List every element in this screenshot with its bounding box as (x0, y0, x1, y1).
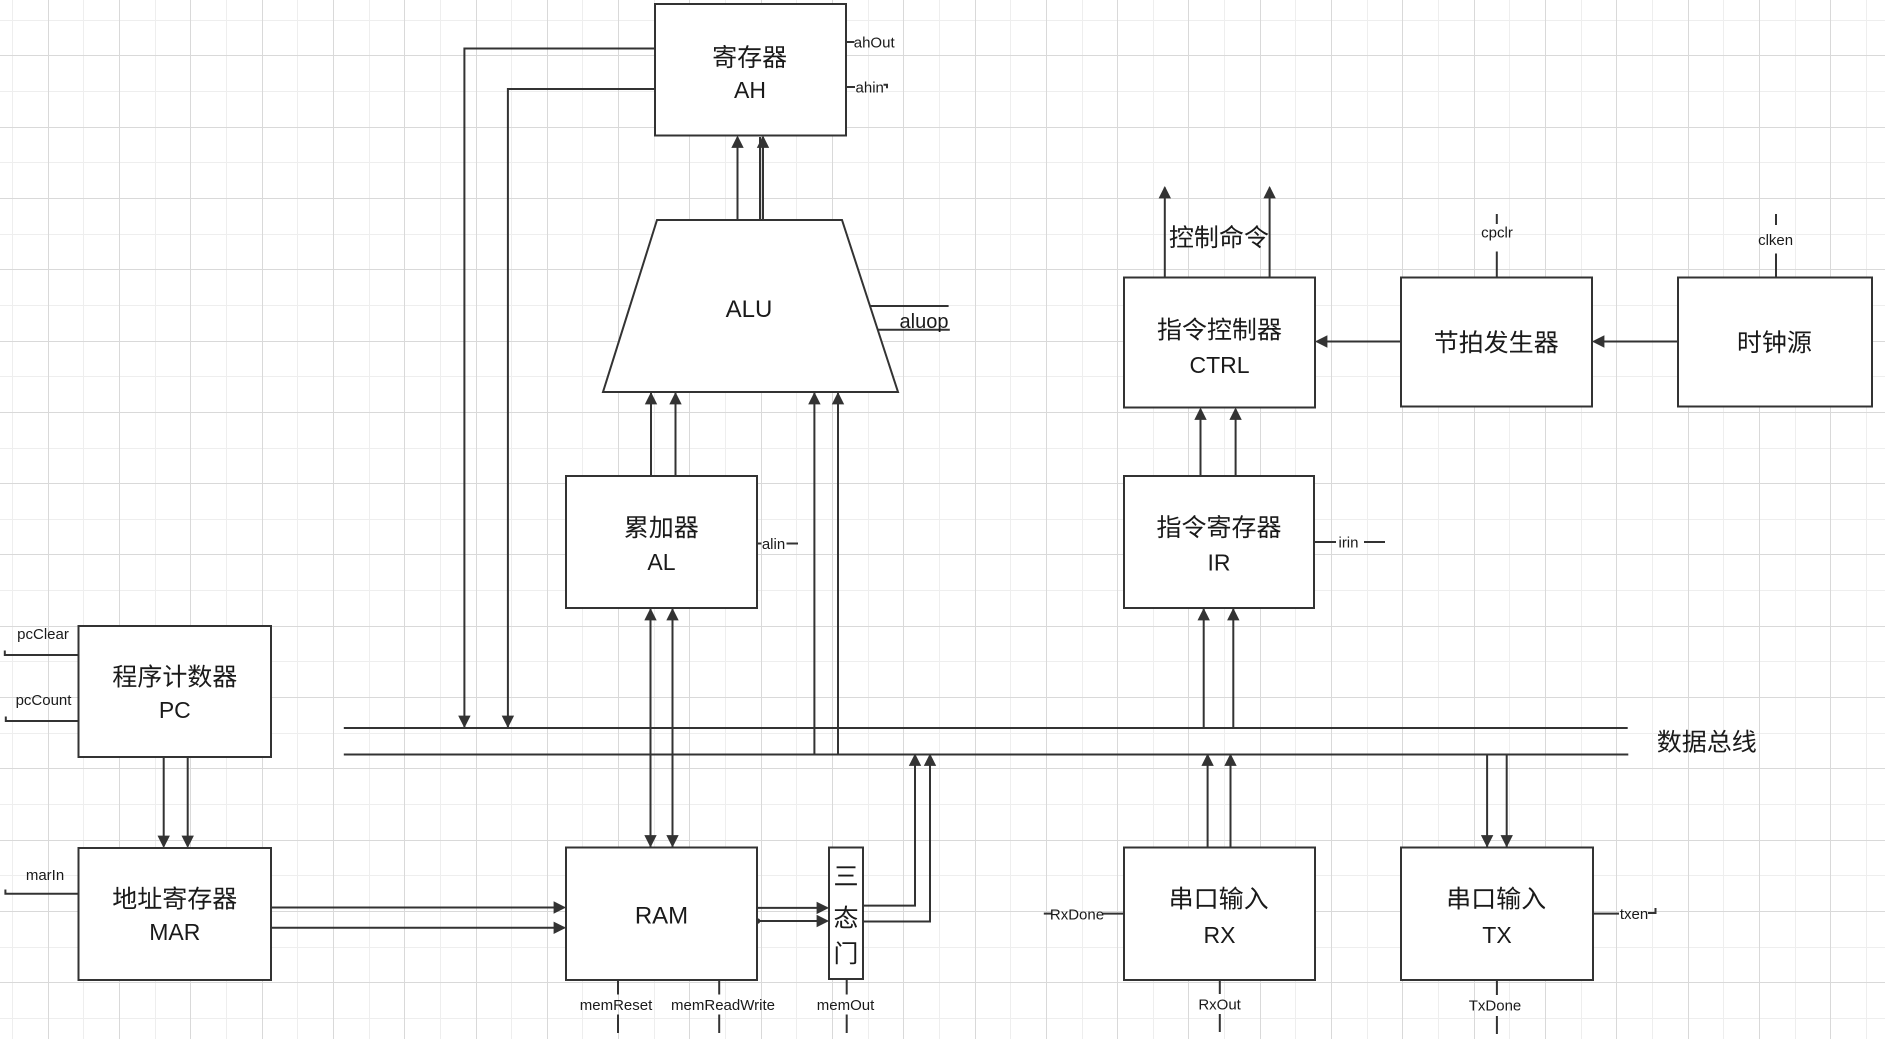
label cpclr (1481, 225, 1513, 242)
label control commands (1170, 225, 1269, 248)
text AH (734, 77, 766, 103)
beat generator box (1401, 278, 1592, 407)
wire IR to CTRL b (1229, 408, 1241, 477)
text instruction register (IR) (1157, 515, 1281, 538)
text beat generator (1435, 330, 1558, 353)
text accumulator (AL) (625, 516, 698, 539)
wire memOut stub lower (846, 1015, 848, 1034)
svg-text:CTRL: CTRL (1189, 352, 1249, 378)
text tri-state gate char 3 (836, 941, 856, 964)
tri-state gate box (829, 848, 863, 980)
svg-text:marIn: marIn (26, 867, 64, 884)
wire txen seg (1593, 913, 1619, 915)
svg-text:AH: AH (734, 77, 766, 103)
svg-text:memReset: memReset (580, 997, 653, 1014)
wire data bus to TX a (1481, 755, 1493, 848)
wire irin right seg (1364, 541, 1385, 543)
svg-text:irin: irin (1338, 535, 1358, 552)
wire cpclr lower (1496, 252, 1498, 278)
text serial input (TX) (1449, 887, 1545, 910)
wire AH input left 1 (bus to AH) (458, 49, 655, 729)
wire clken lower (1775, 254, 1777, 278)
svg-text:ALU: ALU (726, 296, 773, 323)
wire TxDone stub lower (1496, 1016, 1498, 1034)
wire memReset stub (617, 980, 619, 995)
text ALU (726, 296, 773, 323)
svg-text:PC: PC (159, 697, 191, 723)
wire pcCount input (6, 717, 79, 722)
text register (AH) (714, 45, 787, 68)
text instruction controller (CTRL) (1158, 317, 1282, 340)
wire AH input left 2 (bus to AH) (502, 89, 655, 728)
svg-text:pcClear: pcClear (17, 626, 69, 643)
label marIn (26, 867, 64, 884)
text tri-state gate char 1 (835, 866, 857, 885)
wire pcClear input (5, 651, 79, 656)
wire RAM to tri-state gate a (757, 902, 829, 914)
wire marIn input (5, 890, 78, 894)
label data bus (1658, 730, 1756, 753)
instruction controller CTRL box (1124, 278, 1315, 408)
accumulator AL box (566, 476, 757, 608)
wire ahin end tick (884, 85, 888, 89)
wire memReset stub lower (617, 1015, 619, 1034)
wire tri-state gate to data bus b (863, 754, 936, 922)
label pcCount (16, 692, 73, 709)
wire MAR to RAM a (271, 901, 566, 913)
svg-text:memReadWrite: memReadWrite (671, 997, 775, 1014)
wire RxOut stub (1219, 980, 1221, 994)
label memReset (580, 997, 653, 1014)
wire tri-state gate to data bus a (863, 754, 921, 906)
text address register (MAR) (113, 886, 236, 909)
wire TxDone stub (1496, 980, 1498, 995)
text RAM (635, 903, 688, 930)
RAM box (566, 848, 757, 981)
wire alin right seg (787, 543, 799, 545)
wire RxDone right seg (1102, 913, 1124, 915)
wire cpclr upper (1496, 214, 1498, 224)
clock source box (1678, 278, 1872, 407)
wire data bus lower line (344, 754, 1629, 756)
junction dot on RAM output b (755, 918, 761, 924)
text MAR (149, 919, 200, 945)
serial output TX box (1401, 848, 1593, 981)
wire PC to MAR a (158, 757, 170, 848)
text serial input (RX) (1171, 887, 1267, 910)
wire aluop lower (878, 329, 950, 331)
label irin (1338, 535, 1358, 552)
label ahin (856, 79, 884, 96)
wire data bus to AL / RAM a (644, 608, 656, 848)
svg-text:ahOut: ahOut (854, 34, 896, 51)
label aluop (900, 311, 949, 333)
wire ahin seg (846, 86, 855, 88)
label TxDone (1469, 998, 1522, 1015)
svg-text:cpclr: cpclr (1481, 225, 1513, 242)
wire CTRL control output b (1263, 186, 1275, 278)
label RxOut (1198, 997, 1241, 1014)
text clock source (1739, 330, 1811, 353)
svg-text:TX: TX (1482, 922, 1511, 948)
wire data bus to ALU right input a (808, 392, 820, 755)
text RX (1204, 922, 1236, 948)
wire clock source to beat generator (1592, 335, 1678, 347)
text PC (159, 697, 191, 723)
text tri-state gate char 2 (835, 906, 858, 929)
wire IR to CTRL a (1194, 408, 1206, 477)
svg-text:TxDone: TxDone (1469, 998, 1522, 1015)
svg-text:pcCount: pcCount (16, 692, 73, 709)
wire ALU output to AH b (doubled) (759, 137, 761, 220)
label txen (1620, 906, 1648, 923)
svg-text:RAM: RAM (635, 903, 688, 930)
text IR (1208, 550, 1231, 576)
wire RX to data bus a (1201, 754, 1213, 848)
svg-text:clken: clken (1758, 232, 1793, 249)
wire RxOut stub lower (1219, 1014, 1221, 1032)
wire alin left seg (757, 543, 761, 545)
wire AL to ALU input b (669, 392, 681, 476)
wire data bus to IR a (1198, 608, 1210, 728)
wire clken upper (1775, 214, 1777, 225)
wire txen end tick (1648, 908, 1656, 913)
svg-text:RxDone: RxDone (1050, 907, 1104, 924)
label clken (1758, 232, 1793, 249)
wire data bus to IR b (1227, 608, 1239, 728)
wire PC to MAR b (182, 757, 194, 848)
label RxDone (1050, 907, 1104, 924)
instruction register IR box (1124, 476, 1314, 608)
text TX (1482, 922, 1511, 948)
wire CTRL control output a (1159, 186, 1171, 278)
label alin (762, 536, 785, 553)
wire data bus upper line (344, 727, 1628, 729)
wire irin left seg (1314, 541, 1336, 543)
label memOut (817, 997, 875, 1014)
register AH box (655, 4, 846, 136)
svg-text:aluop: aluop (900, 311, 949, 333)
svg-text:memOut: memOut (817, 997, 875, 1014)
label pcClear (17, 626, 69, 643)
text program counter (PC) (113, 664, 237, 687)
svg-text:RxOut: RxOut (1198, 997, 1241, 1014)
wire aluop upper (870, 305, 949, 307)
wire AL to ALU input a (645, 392, 657, 476)
svg-text:MAR: MAR (149, 919, 200, 945)
svg-text:AL: AL (647, 549, 675, 575)
wire ALU output to AH a (731, 136, 743, 221)
wire memReadWrite stub (718, 980, 720, 995)
wire memReadWrite stub lower (718, 1015, 720, 1034)
wire data bus to AL / RAM b (666, 608, 678, 848)
wire data bus to TX b (1501, 755, 1513, 848)
wire RAM to tri-state gate b (757, 915, 829, 927)
program counter PC box (79, 626, 272, 757)
ALU trapezoid (603, 220, 898, 392)
wire beat generator to CTRL (1315, 335, 1401, 347)
label memReadWrite (671, 997, 775, 1014)
svg-text:ahin: ahin (856, 79, 884, 96)
svg-text:IR: IR (1208, 550, 1231, 576)
svg-text:RX: RX (1204, 922, 1236, 948)
text AL (647, 549, 675, 575)
label ahOut (854, 34, 896, 51)
serial input RX box (1124, 848, 1315, 981)
wire MAR to RAM b (271, 922, 566, 934)
address register MAR box (79, 848, 272, 980)
wire ahOut seg (846, 41, 855, 43)
wire data bus to ALU right input b (832, 392, 844, 755)
wire RxDone left seg (1044, 913, 1052, 915)
wire ALU output to AH c (757, 136, 769, 221)
svg-text:alin: alin (762, 536, 785, 553)
text CTRL (1189, 352, 1249, 378)
wire RX to data bus b (1224, 754, 1236, 848)
wire memOut stub (846, 979, 848, 995)
svg-text:txen: txen (1620, 906, 1648, 923)
